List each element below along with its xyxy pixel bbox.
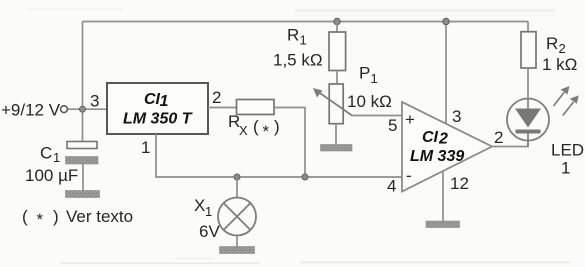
svg-text:+: + (405, 110, 415, 129)
svg-text:2: 2 (559, 41, 566, 56)
svg-text:1,5 kΩ: 1,5 kΩ (273, 51, 323, 70)
ground below pin 12 (426, 221, 460, 228)
svg-text:): ) (53, 207, 59, 226)
svg-text:): ) (274, 117, 280, 136)
wire wiper to op-amp pin5 (352, 115, 402, 117)
svg-text:*: * (37, 210, 44, 229)
svg-text:10 kΩ: 10 kΩ (347, 92, 392, 111)
wire pin 3 from top rail (445, 22, 447, 124)
resistor R2 (527, 22, 529, 32)
node input junction (80, 106, 86, 112)
wire R1 to P1 (336, 71, 338, 85)
svg-text:3: 3 (90, 92, 99, 111)
svg-text:R: R (287, 26, 299, 45)
svg-text:2: 2 (494, 128, 503, 147)
svg-text:CI: CI (144, 91, 161, 108)
svg-text:LM 350 T: LM 350 T (123, 111, 193, 128)
node Rx junction (302, 174, 308, 180)
svg-text:P: P (359, 64, 370, 83)
wire input lead (68, 108, 108, 110)
wire op-amp output to LED (492, 141, 528, 147)
svg-text:X: X (239, 123, 248, 138)
svg-text:(: ( (253, 117, 259, 136)
svg-text:(: ( (22, 207, 28, 226)
svg-text:1: 1 (141, 138, 150, 157)
svg-text:6V: 6V (199, 222, 220, 241)
svg-text:2: 2 (212, 88, 221, 107)
svg-text:C: C (40, 144, 52, 163)
svg-text:5: 5 (388, 116, 397, 135)
svg-text:LM 339: LM 339 (410, 148, 464, 165)
wire pin 12 to ground (442, 171, 444, 221)
svg-text:1: 1 (205, 204, 212, 219)
wire C1 to ground (82, 164, 84, 191)
wire X1 to ground (236, 236, 238, 248)
resistor R1 (336, 22, 338, 33)
op-amp U2 CI2 LM339 (402, 102, 492, 192)
svg-text:1: 1 (160, 93, 169, 110)
LED D1 (507, 99, 549, 141)
resistor Rx (237, 100, 275, 115)
svg-text:12: 12 (450, 174, 469, 193)
capacitor C1 (67, 142, 97, 149)
svg-text:R: R (546, 34, 558, 53)
node pin3 junction (443, 18, 449, 24)
svg-text:X: X (194, 196, 205, 215)
svg-text:4: 4 (387, 177, 396, 196)
svg-text:2: 2 (438, 131, 448, 148)
svg-text:+9/12 V: +9/12 V (1, 101, 61, 120)
ground below X1 (220, 247, 255, 254)
wiper arrow of P1 (319, 92, 353, 116)
svg-text:CI: CI (422, 129, 439, 146)
node X1 junction (234, 174, 240, 180)
wire pin1 CI1 lower rail (156, 134, 402, 177)
wire P1 to ground (335, 124, 337, 145)
svg-text:3: 3 (452, 107, 461, 126)
svg-text:1: 1 (561, 159, 570, 178)
wire Rx to lower rail (274, 108, 305, 178)
svg-text:1: 1 (371, 71, 378, 86)
LED light arrow 1 (554, 93, 565, 107)
ground below C1 (66, 191, 100, 198)
wire pin2 CI1 to Rx (208, 107, 237, 109)
op-amp U1 box CI1 LM350T (107, 83, 208, 134)
LED light arrow 2 (563, 102, 574, 116)
svg-text:*: * (263, 122, 270, 141)
input terminal (61, 106, 68, 113)
svg-text:LED: LED (551, 141, 584, 160)
svg-text:1: 1 (53, 150, 60, 165)
wire top rail (83, 21, 529, 23)
svg-text:Ver texto: Ver texto (66, 207, 133, 226)
svg-text:100 µF: 100 µF (25, 166, 78, 185)
svg-text:1: 1 (300, 33, 307, 48)
wire left vertical from top rail to C1 (82, 22, 84, 142)
svg-text:1 kΩ: 1 kΩ (542, 55, 577, 74)
lamp X1 (236, 177, 238, 198)
svg-text:-: - (406, 166, 412, 185)
wire R2 to LED (527, 68, 529, 99)
node R1 top junction (334, 18, 340, 24)
ground below P1 (321, 145, 353, 152)
potentiometer P1 (329, 84, 343, 124)
